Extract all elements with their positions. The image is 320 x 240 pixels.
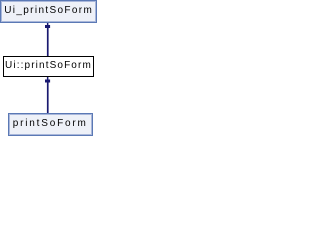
svg-text:Ui_printSoForm: Ui_printSoForm xyxy=(4,5,92,16)
svg-text:Ui::printSoForm: Ui::printSoForm xyxy=(5,60,91,71)
